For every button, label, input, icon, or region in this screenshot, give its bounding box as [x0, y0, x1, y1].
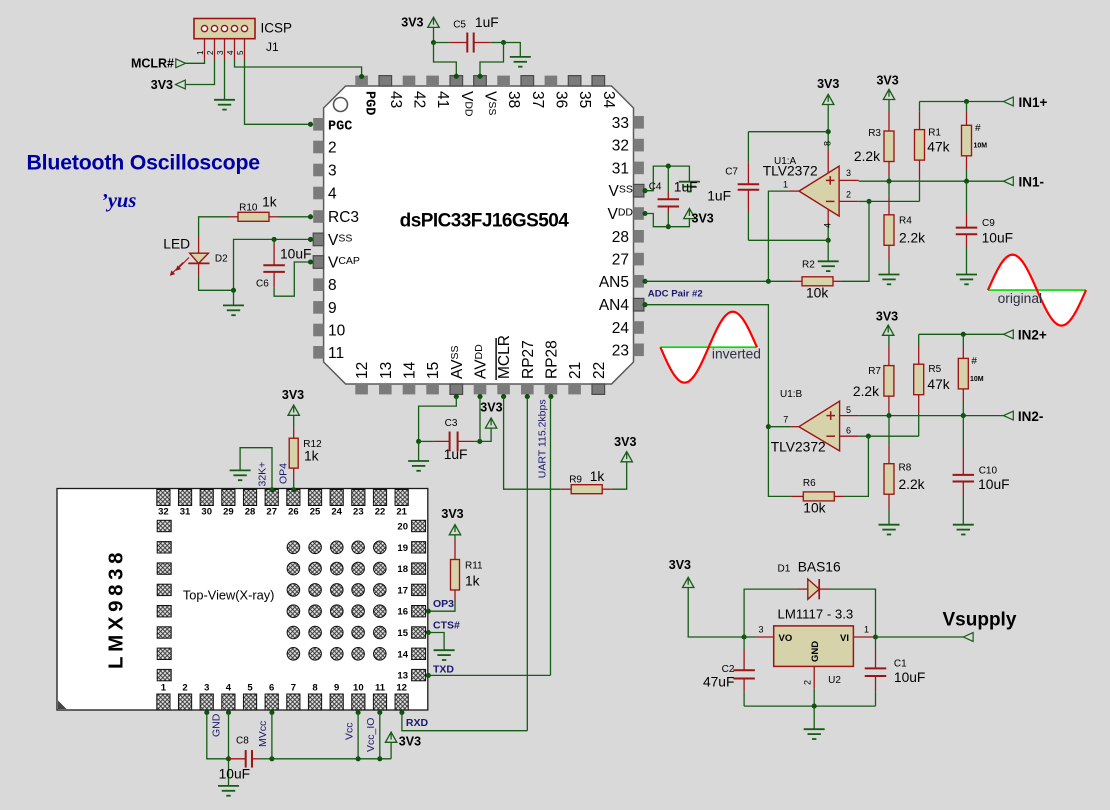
svg-text:Top-View(X-ray): Top-View(X-ray) — [183, 588, 275, 603]
svg-text:3: 3 — [328, 163, 337, 180]
svg-text:CTS#: CTS# — [433, 620, 460, 632]
svg-text:MCLR: MCLR — [496, 335, 513, 379]
svg-text:10uF: 10uF — [280, 247, 311, 262]
svg-text:dsPIC33FJ16GS504: dsPIC33FJ16GS504 — [400, 211, 570, 232]
svg-text:12: 12 — [354, 362, 371, 379]
svg-text:47uF: 47uF — [703, 675, 734, 690]
svg-text:1k: 1k — [465, 574, 480, 589]
svg-text:PGD: PGD — [362, 91, 377, 115]
svg-text:13: 13 — [397, 671, 408, 682]
svg-text:27: 27 — [612, 252, 629, 269]
svg-text:2: 2 — [206, 50, 215, 55]
svg-text:C8: C8 — [236, 735, 249, 746]
svg-text:10k: 10k — [806, 286, 828, 301]
svg-text:10k: 10k — [803, 500, 825, 515]
svg-text:10uF: 10uF — [982, 230, 1013, 245]
svg-text:28: 28 — [612, 229, 629, 246]
svg-text:C9: C9 — [982, 218, 995, 229]
svg-text:R5: R5 — [928, 364, 941, 375]
svg-text:15: 15 — [397, 628, 408, 639]
svg-text:IN2-: IN2- — [1018, 409, 1044, 424]
svg-text:24: 24 — [612, 320, 630, 337]
svg-text:Vcc: Vcc — [343, 722, 355, 740]
svg-text:ICSP: ICSP — [261, 21, 293, 36]
svg-text:C3: C3 — [445, 418, 458, 429]
svg-text:inverted: inverted — [712, 346, 761, 361]
svg-text:3: 3 — [204, 683, 209, 694]
svg-text:VI: VI — [840, 633, 849, 644]
svg-text:43: 43 — [387, 91, 404, 108]
svg-text:U1:B: U1:B — [780, 389, 803, 400]
svg-text:3V3: 3V3 — [876, 310, 898, 324]
svg-text:10uF: 10uF — [219, 767, 250, 782]
svg-text:GND: GND — [810, 641, 821, 662]
svg-text:1uF: 1uF — [444, 447, 468, 462]
svg-text:MVcc: MVcc — [257, 721, 269, 747]
svg-text:LM1117 - 3.3: LM1117 - 3.3 — [778, 606, 854, 621]
svg-text:R2: R2 — [802, 260, 815, 271]
svg-text:D1: D1 — [778, 564, 791, 575]
svg-text:38: 38 — [505, 91, 522, 108]
svg-text:18: 18 — [397, 564, 408, 575]
svg-text:AN5: AN5 — [599, 274, 629, 291]
svg-text:2: 2 — [803, 680, 813, 685]
svg-text:1: 1 — [783, 179, 788, 189]
svg-text:5: 5 — [236, 50, 245, 55]
svg-text:3V3: 3V3 — [151, 78, 173, 92]
svg-text:26: 26 — [288, 507, 299, 518]
svg-text:22: 22 — [375, 507, 386, 518]
svg-text:23: 23 — [353, 507, 364, 518]
svg-text:TXD: TXD — [433, 663, 454, 675]
svg-text:3V3: 3V3 — [441, 507, 463, 521]
svg-text:9: 9 — [328, 300, 337, 317]
svg-text:32K+: 32K+ — [257, 462, 269, 487]
svg-text:4: 4 — [823, 223, 833, 228]
svg-text:PGC: PGC — [328, 119, 352, 134]
svg-text:34: 34 — [600, 91, 617, 109]
svg-text:3V3: 3V3 — [399, 735, 421, 749]
svg-text:1: 1 — [161, 683, 167, 694]
svg-text:35: 35 — [576, 91, 593, 108]
svg-text:16: 16 — [397, 607, 408, 618]
svg-text:32: 32 — [158, 507, 169, 518]
svg-text:10M: 10M — [974, 143, 988, 150]
svg-text:8: 8 — [312, 683, 317, 694]
svg-text:R8: R8 — [899, 463, 912, 474]
svg-text:R11: R11 — [465, 561, 483, 572]
svg-text:36: 36 — [552, 91, 569, 108]
svg-text:OP3: OP3 — [433, 598, 454, 610]
svg-text:1uF: 1uF — [475, 15, 499, 30]
svg-text:VO: VO — [779, 633, 793, 644]
svg-text:1uF: 1uF — [707, 189, 731, 204]
svg-text:#: # — [975, 123, 981, 134]
svg-text:24: 24 — [331, 507, 342, 518]
svg-text:RC3: RC3 — [328, 209, 359, 226]
svg-text:21: 21 — [567, 362, 584, 379]
svg-text:30: 30 — [201, 507, 212, 518]
svg-text:LED: LED — [163, 236, 190, 251]
svg-text:C4: C4 — [649, 182, 662, 193]
svg-text:OP4: OP4 — [278, 463, 290, 484]
svg-text:C7: C7 — [725, 166, 738, 177]
svg-text:Bluetooth Oscilloscope: Bluetooth Oscilloscope — [27, 151, 261, 175]
svg-text:R1: R1 — [928, 128, 941, 139]
svg-text:10: 10 — [353, 683, 364, 694]
svg-text:10: 10 — [328, 323, 346, 340]
svg-text:ADC Pair #2: ADC Pair #2 — [648, 288, 703, 299]
svg-text:14: 14 — [397, 649, 408, 660]
svg-text:TLV2372: TLV2372 — [763, 163, 818, 178]
svg-text:2.2k: 2.2k — [899, 230, 925, 245]
svg-text:3V3: 3V3 — [817, 77, 839, 91]
svg-text:3: 3 — [759, 625, 764, 635]
svg-text:3V3: 3V3 — [692, 212, 714, 226]
svg-text:3: 3 — [216, 50, 225, 55]
svg-text:IN2+: IN2+ — [1018, 328, 1047, 343]
svg-text:2.2k: 2.2k — [854, 149, 880, 164]
svg-text:31: 31 — [180, 507, 191, 518]
svg-text:5: 5 — [247, 683, 253, 694]
svg-text:32: 32 — [612, 138, 629, 155]
svg-text:2: 2 — [328, 140, 337, 157]
svg-text:’yus: ’yus — [101, 190, 136, 212]
svg-text:LMX9838: LMX9838 — [105, 548, 128, 669]
svg-text:IN1-: IN1- — [1019, 175, 1045, 190]
svg-text:15: 15 — [425, 362, 442, 379]
svg-text:42: 42 — [411, 91, 428, 108]
svg-text:J1: J1 — [266, 40, 279, 54]
svg-text:10M: 10M — [970, 376, 984, 383]
svg-text:R6: R6 — [803, 478, 816, 489]
svg-text:2: 2 — [182, 683, 187, 694]
svg-text:1k: 1k — [590, 469, 605, 484]
svg-text:1uF: 1uF — [674, 180, 698, 195]
svg-text:IN1+: IN1+ — [1019, 95, 1048, 110]
svg-text:22: 22 — [591, 362, 608, 379]
svg-text:21: 21 — [396, 507, 407, 518]
svg-text:8: 8 — [823, 141, 833, 146]
svg-text:R7: R7 — [868, 366, 881, 377]
svg-text:Vcc_IO: Vcc_IO — [365, 718, 377, 752]
svg-text:20: 20 — [397, 522, 408, 533]
svg-text:1k: 1k — [304, 449, 319, 464]
svg-text:R9: R9 — [569, 474, 582, 485]
svg-text:6: 6 — [269, 683, 274, 694]
svg-text:3V3: 3V3 — [480, 401, 502, 415]
svg-text:9: 9 — [334, 683, 339, 694]
svg-text:R4: R4 — [899, 215, 912, 226]
svg-text:33: 33 — [612, 115, 629, 132]
svg-text:3V3: 3V3 — [614, 435, 636, 449]
svg-text:AN4: AN4 — [599, 297, 630, 314]
svg-text:7: 7 — [291, 683, 296, 694]
svg-text:1: 1 — [864, 625, 869, 635]
svg-text:C5: C5 — [453, 19, 466, 30]
svg-text:27: 27 — [266, 507, 277, 518]
svg-text:RP27: RP27 — [520, 340, 537, 379]
svg-text:UART 115.2kbps: UART 115.2kbps — [537, 399, 549, 478]
svg-text:3: 3 — [846, 168, 851, 178]
svg-text:13: 13 — [378, 362, 395, 379]
svg-text:11: 11 — [328, 345, 344, 362]
svg-text:C2: C2 — [722, 664, 735, 675]
svg-text:4: 4 — [226, 50, 235, 55]
svg-text:10uF: 10uF — [978, 477, 1009, 492]
svg-text:23: 23 — [612, 342, 629, 359]
svg-text:28: 28 — [245, 507, 256, 518]
svg-text:10uF: 10uF — [894, 670, 925, 685]
svg-text:C1: C1 — [894, 658, 907, 669]
svg-text:47k: 47k — [927, 377, 949, 392]
svg-text:29: 29 — [223, 507, 234, 518]
svg-text:7: 7 — [783, 414, 788, 424]
svg-text:3V3: 3V3 — [669, 558, 691, 572]
svg-text:4: 4 — [328, 186, 337, 203]
svg-text:RXD: RXD — [406, 717, 429, 729]
svg-text:1k: 1k — [262, 194, 277, 209]
svg-text:8: 8 — [328, 277, 337, 294]
svg-text:37: 37 — [529, 91, 546, 108]
svg-text:1: 1 — [196, 50, 205, 55]
svg-text:4: 4 — [226, 683, 232, 694]
svg-text:3V3: 3V3 — [876, 74, 898, 88]
svg-text:14: 14 — [402, 361, 419, 379]
svg-text:R3: R3 — [868, 128, 881, 139]
svg-text:MCLR#: MCLR# — [131, 57, 174, 71]
svg-text:31: 31 — [612, 160, 629, 177]
svg-text:25: 25 — [310, 507, 321, 518]
svg-text:17: 17 — [397, 585, 408, 596]
svg-text:3V3: 3V3 — [282, 388, 304, 402]
svg-text:2: 2 — [846, 189, 851, 199]
svg-text:41: 41 — [434, 91, 451, 108]
svg-text:6: 6 — [846, 426, 851, 436]
svg-text:19: 19 — [397, 543, 408, 554]
svg-text:11: 11 — [375, 683, 386, 694]
svg-text:2.2k: 2.2k — [853, 384, 879, 399]
svg-text:#: # — [971, 356, 977, 367]
svg-text:U2: U2 — [828, 675, 841, 686]
svg-text:47k: 47k — [927, 140, 949, 155]
svg-text:2.2k: 2.2k — [899, 477, 925, 492]
svg-text:3V3: 3V3 — [401, 16, 423, 30]
svg-text:RP28: RP28 — [543, 340, 560, 379]
svg-text:C6: C6 — [256, 279, 269, 290]
svg-text:D2: D2 — [215, 253, 228, 264]
svg-text:GND: GND — [211, 713, 223, 737]
svg-text:C10: C10 — [979, 465, 998, 476]
svg-text:TLV2372: TLV2372 — [771, 440, 826, 455]
svg-text:original: original — [998, 291, 1042, 306]
svg-text:12: 12 — [396, 683, 407, 694]
svg-text:5: 5 — [846, 405, 851, 415]
svg-text:Vsupply: Vsupply — [943, 610, 1017, 631]
svg-text:BAS16: BAS16 — [798, 560, 841, 575]
